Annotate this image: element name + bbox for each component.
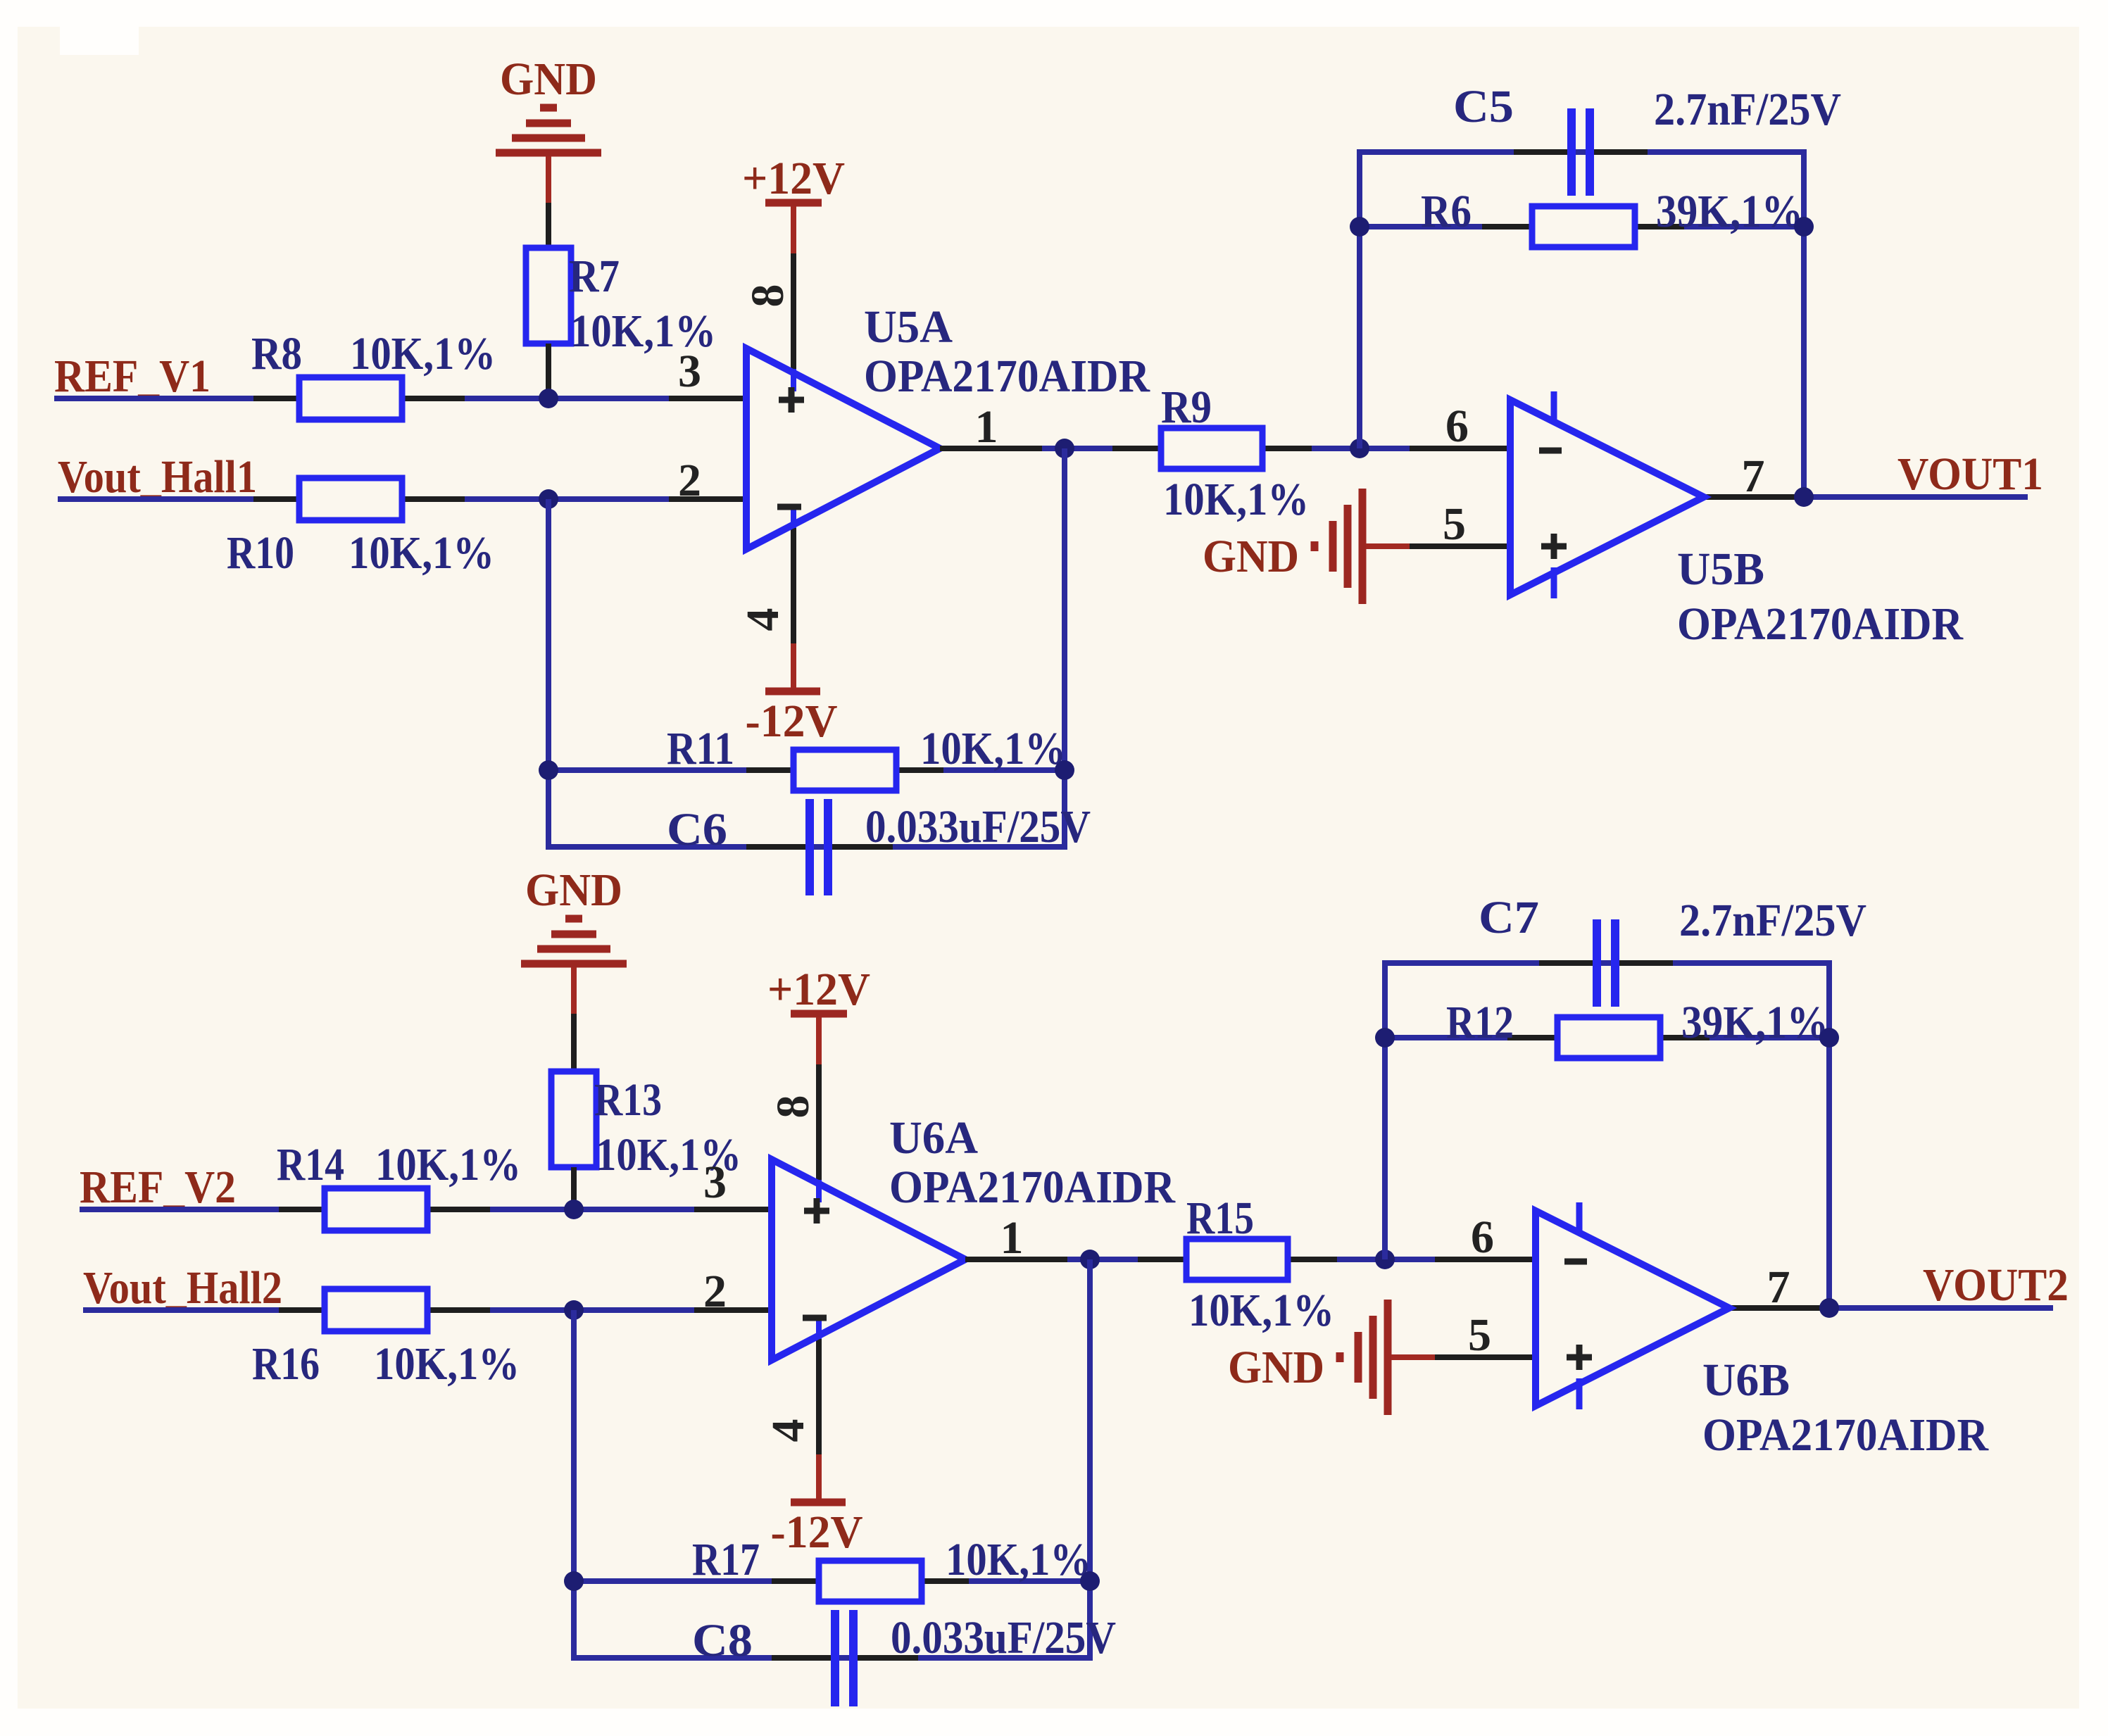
ground GND (U6B pin 5) <box>1228 1300 1435 1415</box>
svg-text:R7: R7 <box>569 251 620 302</box>
svg-text:10K,1%: 10K,1% <box>1163 474 1309 525</box>
node/junction output - loop <box>1055 439 1074 458</box>
wire U5A pin 1 lead <box>940 446 1042 451</box>
svg-text:R16: R16 <box>252 1338 320 1390</box>
svg-text:8: 8 <box>767 1095 819 1119</box>
svg-text:1: 1 <box>975 401 998 453</box>
svg-text:R9: R9 <box>1161 382 1212 433</box>
node/junction REF_V2 - R13 <box>564 1200 584 1219</box>
wire feedback loop (left vertical, top, right vertical) <box>1385 963 1829 1308</box>
svg-text:U6A: U6A <box>889 1112 978 1164</box>
resistor R7 10K,1% (vertical) <box>526 248 716 398</box>
wire VOUT1 <box>1795 494 2028 500</box>
node/junction output - loop <box>1080 1250 1100 1269</box>
svg-text:R15: R15 <box>1186 1193 1254 1244</box>
svg-text:C7: C7 <box>1479 892 1539 943</box>
svg-text:8: 8 <box>742 284 793 308</box>
svg-text:+12V: +12V <box>742 153 845 204</box>
svg-text:10K,1%: 10K,1% <box>946 1534 1091 1585</box>
node/junction VOUT1 - feedback <box>1794 487 1814 507</box>
svg-text:GND: GND <box>1203 531 1299 582</box>
wire +12V to U5A pin 8 <box>791 253 796 372</box>
svg-text:10K,1%: 10K,1% <box>1188 1285 1334 1336</box>
svg-text:GND: GND <box>500 54 597 105</box>
svg-text:C6: C6 <box>667 804 727 855</box>
svg-text:VOUT2: VOUT2 <box>1923 1259 2069 1311</box>
svg-text:OPA2170AIDR: OPA2170AIDR <box>889 1162 1176 1213</box>
svg-text:4: 4 <box>737 608 789 631</box>
wire lower loop (left vertical, bottom, right vertical) <box>574 1259 1090 1658</box>
node/junction R15 out - feedback <box>1375 1250 1395 1269</box>
resistor R15 10K,1% <box>1138 1193 1337 1336</box>
wire feedback loop (left vertical, top, right vertical) <box>1360 152 1804 497</box>
wire U6A pin 4 to -12V <box>816 1337 822 1454</box>
svg-text:-12V: -12V <box>746 696 838 747</box>
power -12V <box>746 643 838 747</box>
op-amp U5A OPA2170AIDR <box>669 301 1150 549</box>
resistor R13 10K,1% (vertical) <box>551 1071 741 1209</box>
wire U5A pin 4 to -12V <box>791 526 796 643</box>
svg-text:OPA2170AIDR: OPA2170AIDR <box>1677 598 1964 650</box>
power -12V <box>771 1454 863 1558</box>
svg-text:2.7nF/25V: 2.7nF/25V <box>1679 895 1867 946</box>
wire VOUT2 <box>1821 1305 2053 1311</box>
capacitor C7 2.7nF/25V <box>1479 892 1867 1007</box>
svg-text:R6: R6 <box>1421 186 1472 237</box>
svg-text:R10: R10 <box>227 527 294 579</box>
node/junction lower-loop right <box>1055 760 1074 780</box>
svg-text:2.7nF/25V: 2.7nF/25V <box>1654 84 1841 135</box>
wire R11 branch <box>548 767 1065 773</box>
svg-text:C8: C8 <box>692 1615 753 1666</box>
svg-text:U5B: U5B <box>1677 543 1764 595</box>
node/junction feedback right <box>1819 1028 1839 1048</box>
wire lower loop (left vertical, bottom, right vertical) <box>548 448 1065 847</box>
svg-text:6: 6 <box>1471 1212 1494 1263</box>
resistor R16 10K,1% <box>252 1289 520 1390</box>
svg-text:R17: R17 <box>692 1534 760 1585</box>
wire U5A out / R9 / U5B pin 6 <box>943 446 1510 451</box>
resistor R12 39K,1% <box>1446 997 1828 1058</box>
wire R12 branch <box>1385 1035 1829 1040</box>
power +12V <box>767 964 870 1064</box>
wire REF_V2 to U6A pin 3 <box>80 1207 772 1212</box>
node/junction feedback right <box>1794 217 1814 237</box>
power +12V <box>742 153 845 253</box>
svg-text:6: 6 <box>1445 401 1469 452</box>
resistor R6 39K,1% <box>1421 186 1803 247</box>
ground GND (top) <box>521 864 627 1071</box>
svg-text:OPA2170AIDR: OPA2170AIDR <box>1702 1409 1989 1461</box>
wire Vout_Hall2 to U6A pin 2 <box>83 1307 772 1313</box>
node/junction lower-loop right <box>1080 1571 1100 1591</box>
resistor R8 10K,1% <box>251 328 496 420</box>
node/junction REF_V1 - R7 <box>539 389 558 408</box>
resistor R11 10K,1% <box>667 723 1066 791</box>
wire +12V to U6A pin 8 <box>816 1064 822 1183</box>
svg-text:REF_V2: REF_V2 <box>80 1162 236 1213</box>
svg-text:10K,1%: 10K,1% <box>349 527 494 579</box>
svg-text:R8: R8 <box>251 328 302 379</box>
svg-text:U5A: U5A <box>864 301 953 353</box>
svg-text:39K,1%: 39K,1% <box>1656 186 1803 237</box>
svg-text:4: 4 <box>763 1419 814 1442</box>
node/junction Vout_Hall1 - feedback branch <box>539 489 558 509</box>
svg-text:OPA2170AIDR: OPA2170AIDR <box>864 351 1150 402</box>
svg-text:R14: R14 <box>277 1139 344 1190</box>
svg-text:2: 2 <box>678 455 701 506</box>
svg-text:5: 5 <box>1443 498 1466 550</box>
svg-text:10K,1%: 10K,1% <box>920 723 1066 774</box>
svg-text:R13: R13 <box>594 1074 662 1126</box>
node/junction VOUT2 - feedback <box>1819 1298 1839 1318</box>
ground GND (U5B pin 5) <box>1203 489 1410 604</box>
op-amp U6A OPA2170AIDR <box>694 1112 1176 1360</box>
svg-text:GND: GND <box>525 864 622 916</box>
wire U6A out / R15 / U6B pin 6 <box>969 1257 1536 1262</box>
svg-text:3: 3 <box>678 346 701 397</box>
op-amp U6B OPA2170AIDR <box>1435 1202 1989 1461</box>
op-amp U5B OPA2170AIDR <box>1410 391 1964 650</box>
svg-text:Vout_Hall1: Vout_Hall1 <box>58 451 257 503</box>
svg-text:0.033uF/25V: 0.033uF/25V <box>865 801 1091 853</box>
svg-text:0.033uF/25V: 0.033uF/25V <box>891 1612 1116 1663</box>
node/junction feedback left <box>1350 217 1369 237</box>
svg-text:5: 5 <box>1468 1309 1491 1361</box>
wire U6A pin 1 lead <box>965 1257 1067 1262</box>
wire REF_V1 to U5A pin 3 <box>54 396 746 401</box>
resistor R14 10K,1% <box>277 1139 521 1231</box>
svg-text:10K,1%: 10K,1% <box>374 1338 520 1390</box>
svg-text:3: 3 <box>703 1157 727 1208</box>
node/junction Vout_Hall2 - feedback branch <box>564 1300 584 1320</box>
node/junction feedback left <box>1375 1028 1395 1048</box>
resistor R17 10K,1% <box>692 1534 1091 1602</box>
capacitor C8 0.033uF/25V <box>692 1610 1116 1706</box>
wire R17 branch <box>574 1578 1090 1584</box>
resistor R10 10K,1% <box>227 478 494 579</box>
svg-text:-12V: -12V <box>771 1507 863 1558</box>
svg-text:+12V: +12V <box>767 964 870 1015</box>
ground GND (top) <box>496 54 601 248</box>
capacitor C6 0.033uF/25V <box>667 799 1091 895</box>
svg-text:2: 2 <box>703 1266 727 1317</box>
svg-text:REF_V1: REF_V1 <box>54 351 211 402</box>
svg-text:Vout_Hall2: Vout_Hall2 <box>83 1262 282 1314</box>
svg-text:10K,1%: 10K,1% <box>375 1139 521 1190</box>
svg-text:R12: R12 <box>1446 997 1514 1048</box>
svg-text:R11: R11 <box>667 723 734 774</box>
svg-text:C5: C5 <box>1453 81 1514 132</box>
node/junction lower-loop left <box>539 760 558 780</box>
wire Vout_Hall1 to U5A pin 2 <box>58 496 746 502</box>
svg-text:39K,1%: 39K,1% <box>1681 997 1828 1048</box>
svg-text:1: 1 <box>1000 1212 1024 1264</box>
svg-text:7: 7 <box>1742 451 1765 502</box>
svg-text:U6B: U6B <box>1702 1354 1790 1406</box>
resistor R9 10K,1% <box>1112 382 1312 525</box>
svg-text:7: 7 <box>1767 1262 1790 1313</box>
svg-text:VOUT1: VOUT1 <box>1897 448 2043 500</box>
node/junction lower-loop left <box>564 1571 584 1591</box>
svg-text:GND: GND <box>1228 1342 1324 1393</box>
wire R6 branch <box>1360 224 1804 229</box>
svg-text:10K,1%: 10K,1% <box>350 328 496 379</box>
node/junction R9 out - feedback <box>1350 439 1369 458</box>
capacitor C5 2.7nF/25V <box>1453 81 1841 196</box>
